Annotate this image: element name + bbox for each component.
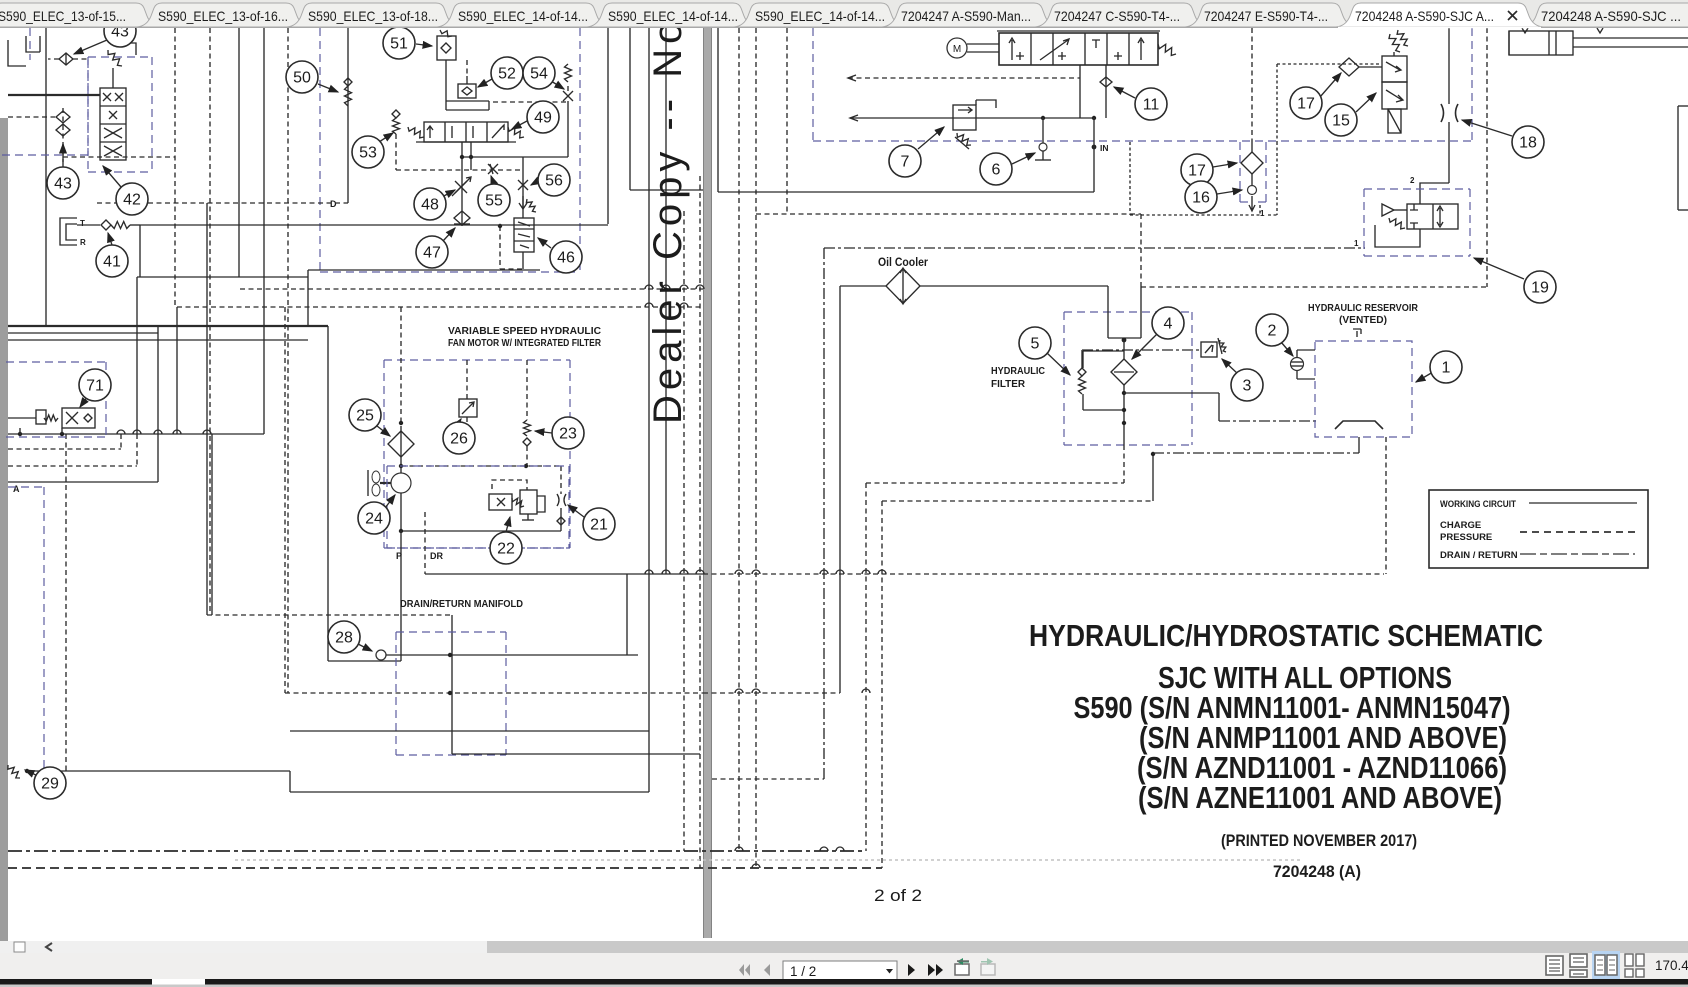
wire	[400, 431, 402, 457]
svg-text:41: 41	[103, 254, 121, 271]
callout balloon 4	[1152, 307, 1184, 339]
wire	[8, 481, 158, 483]
callout balloon 17	[1290, 87, 1322, 119]
restrictor orifice	[103, 93, 111, 101]
callout balloon 16	[1185, 181, 1217, 213]
enclosure (blue dashed)	[505, 632, 507, 755]
wire	[446, 100, 489, 102]
symbol	[1297, 350, 1315, 379]
enclosure (blue dashed)	[568, 466, 570, 548]
symbol	[518, 222, 530, 248]
enclosure (blue dashed)	[1265, 142, 1267, 202]
symbol	[1410, 204, 1418, 229]
wire	[1030, 33, 1032, 65]
bottom black bar	[0, 979, 1688, 985]
symbol	[1016, 52, 1024, 60]
spring	[957, 133, 971, 145]
svg-text:(S/N AZNE11001 AND ABOVE): (S/N AZNE11001 AND ABOVE)	[1138, 780, 1502, 815]
wire	[206, 203, 208, 615]
leader arrow	[1462, 120, 1512, 136]
toolbar row	[0, 953, 1688, 980]
leader arrow	[538, 238, 551, 248]
spring	[345, 86, 352, 106]
enclosure (blue dashed)	[88, 56, 152, 58]
enclosure (blue dashed)	[387, 465, 569, 467]
svg-text:4: 4	[1164, 316, 1173, 333]
symbol	[452, 126, 473, 138]
wire (dash-dot drain line)	[1153, 452, 1359, 454]
spring	[8, 765, 20, 778]
symbol	[1205, 345, 1213, 353]
leader arrow	[80, 396, 88, 407]
component body	[62, 408, 95, 428]
svg-text:7204247 A-S590-Man...: 7204247 A-S590-Man...	[901, 8, 1031, 24]
leader arrow	[551, 81, 564, 89]
enclosure (blue dashed)	[6, 436, 106, 438]
wire	[1677, 106, 1679, 210]
wire	[522, 519, 534, 521]
spring	[526, 199, 536, 212]
svg-text:7204248 A-S590-SJC A...: 7204248 A-S590-SJC A...	[1355, 8, 1494, 24]
wire	[522, 252, 524, 269]
callout balloon 23	[552, 417, 584, 449]
wire (dashed charge line)	[1486, 28, 1488, 287]
wire (dashed charge line)	[8, 116, 55, 118]
wire (dashed charge line)	[699, 176, 701, 868]
wire (dashed charge line)	[396, 169, 523, 171]
wire	[328, 660, 401, 662]
wire (dashed charge line)	[424, 512, 426, 574]
check-valve/filter diamond	[56, 111, 70, 123]
wire	[1448, 28, 1450, 104]
enclosure (blue dashed)	[387, 547, 569, 549]
check-valve/filter diamond	[1339, 58, 1359, 76]
check-valve/filter diamond	[56, 124, 70, 136]
wire	[445, 101, 447, 110]
svg-text:7: 7	[901, 154, 910, 171]
svg-text:(PRINTED NOVEMBER 2017): (PRINTED NOVEMBER 2017)	[1221, 831, 1417, 850]
symbol	[1249, 196, 1255, 211]
enclosure (blue dashed)	[43, 487, 45, 780]
callout balloon 42	[116, 183, 148, 215]
leader arrow	[1281, 342, 1293, 356]
wire	[45, 28, 47, 326]
wire	[567, 86, 569, 91]
enclosure (blue dashed)	[320, 271, 580, 273]
wire	[522, 157, 524, 218]
callout balloon 71	[79, 369, 111, 401]
svg-text:24: 24	[365, 511, 383, 528]
wire (dashed charge line)	[466, 417, 468, 430]
wire	[1052, 33, 1054, 65]
enclosure (blue dashed)	[569, 360, 571, 548]
symbol	[1277, 63, 1382, 65]
wire (dashed charge line)	[401, 465, 561, 467]
svg-text:56: 56	[545, 173, 563, 190]
wire (dashed charge line)	[1141, 286, 1487, 288]
callout balloon 1	[1430, 351, 1462, 383]
wire (dashed charge line)	[712, 778, 824, 780]
callout balloon 24	[358, 502, 390, 534]
wire	[445, 60, 447, 101]
wire	[1573, 46, 1688, 48]
callout balloon 19	[1524, 271, 1556, 303]
wire	[367, 470, 369, 496]
wire (dashed charge line)	[466, 360, 468, 399]
leader arrow	[25, 770, 38, 776]
fan motor 24 with fan	[391, 473, 411, 493]
svg-text:25: 25	[356, 408, 374, 425]
wire (dashed charge line)	[500, 268, 523, 270]
svg-text:VARIABLE SPEED HYDRAULIC: VARIABLE SPEED HYDRAULIC	[448, 325, 601, 337]
svg-text:47: 47	[423, 245, 441, 262]
wire	[100, 123, 126, 125]
wire	[1140, 287, 1142, 338]
wire (dashed charge line)	[865, 483, 867, 851]
svg-text:15: 15	[1332, 113, 1350, 130]
wire	[1042, 118, 1044, 143]
wire	[8, 332, 158, 334]
junction	[1041, 116, 1045, 120]
component body	[999, 33, 1158, 65]
enclosure (blue dashed)	[2, 154, 88, 156]
enclosure (blue dashed)	[1469, 189, 1471, 256]
wire (dashed charge line)	[207, 614, 452, 616]
enclosure (blue dashed)	[1240, 201, 1248, 203]
svg-text:17: 17	[1188, 163, 1206, 180]
wire	[514, 228, 534, 230]
component body	[100, 88, 126, 160]
symbol	[1009, 38, 1015, 60]
check-valve/filter diamond	[392, 110, 400, 118]
wire (dashed charge line)	[136, 434, 138, 466]
wire (dotted)	[1276, 64, 1278, 142]
leader arrow	[491, 176, 494, 184]
wire	[717, 28, 719, 192]
wire	[1082, 394, 1084, 410]
symbol	[1218, 338, 1222, 354]
symbol	[492, 480, 527, 490]
wire	[1105, 77, 1107, 87]
wire	[307, 270, 309, 277]
wire	[136, 277, 138, 434]
enclosure (blue dashed)	[812, 28, 814, 141]
wire	[290, 730, 649, 732]
svg-text:Dealer Copy -- Not for Resale: Dealer Copy -- Not for Resale	[646, 0, 690, 424]
wire	[8, 339, 308, 341]
svg-text:DR: DR	[430, 551, 443, 561]
svg-text:2: 2	[1268, 323, 1277, 340]
svg-text:49: 49	[534, 110, 552, 127]
symbol	[66, 224, 77, 240]
svg-text:DRAIN / RETURN: DRAIN / RETURN	[1440, 550, 1518, 561]
callout balloon 6	[980, 153, 1012, 185]
wire (dashed charge line)	[8, 448, 121, 450]
leader arrow	[1217, 190, 1242, 194]
svg-text:WORKING CIRCUIT: WORKING CIRCUIT	[1440, 499, 1516, 510]
wire	[290, 791, 649, 793]
svg-text:FILTER: FILTER	[991, 378, 1025, 390]
callout balloon 49	[527, 101, 559, 133]
enclosure (blue dashed)	[386, 466, 388, 548]
wire	[997, 30, 1160, 32]
leader arrow	[1222, 359, 1238, 374]
wire (dashed charge line)	[526, 360, 528, 420]
leader arrow	[1213, 163, 1237, 167]
callout balloon 22	[490, 532, 522, 564]
callout balloon 53	[352, 136, 384, 168]
svg-text:S590_ELEC_14-of-14...: S590_ELEC_14-of-14...	[755, 8, 885, 24]
wire	[839, 286, 841, 693]
enclosure (blue dashed)	[1239, 142, 1241, 202]
wire	[1291, 365, 1303, 367]
wire (dashed charge line)	[400, 307, 402, 431]
wire	[386, 654, 638, 656]
svg-text:170.4: 170.4	[1655, 958, 1688, 973]
wire	[400, 531, 402, 661]
wire	[648, 28, 650, 792]
wire	[238, 28, 240, 277]
symbol	[1092, 40, 1100, 48]
wire	[466, 76, 468, 84]
wire (dashed charge line)	[526, 446, 528, 466]
svg-text:55: 55	[485, 193, 503, 210]
wire	[1678, 105, 1688, 107]
wire (trunk)	[380, 482, 391, 484]
spring	[1079, 376, 1086, 394]
svg-text:1: 1	[1354, 239, 1359, 248]
svg-text:D: D	[330, 199, 337, 209]
component body	[437, 36, 456, 60]
component body	[1315, 341, 1412, 437]
wire	[157, 326, 159, 482]
spring	[524, 420, 531, 436]
check-valve/filter diamond	[454, 211, 470, 225]
tab bar	[0, 3, 1688, 28]
check-valve/filter diamond	[462, 87, 472, 95]
callout balloon 5	[1019, 327, 1051, 359]
wire	[560, 508, 562, 531]
restrictor orifice	[518, 180, 528, 190]
svg-text:46: 46	[557, 250, 575, 267]
svg-text:22: 22	[497, 541, 515, 558]
wire	[1083, 409, 1124, 411]
svg-text:26: 26	[450, 431, 468, 448]
callout balloon 11	[1135, 88, 1167, 120]
callout balloon 26	[443, 422, 475, 454]
symbol	[1114, 52, 1122, 60]
wire	[840, 285, 886, 287]
symbol	[1130, 142, 1277, 215]
wire	[967, 43, 999, 45]
wire	[1548, 31, 1550, 55]
wire (dashed charge line)	[786, 28, 788, 214]
wire (dashed charge line)	[1251, 28, 1253, 142]
wire (dashed charge line)	[493, 101, 567, 103]
wire (dashed charge line)	[209, 28, 211, 615]
wire (dashed charge line)	[866, 482, 1124, 484]
callout balloon 7	[889, 145, 921, 177]
wire (dashed charge line)	[703, 573, 1384, 575]
symbol	[490, 164, 493, 174]
callout balloon 15	[1325, 104, 1357, 136]
svg-text:21: 21	[590, 517, 608, 534]
enclosure (blue dashed)	[1064, 311, 1192, 313]
wire (dashed charge line)	[240, 288, 703, 290]
restrictor orifice	[563, 91, 573, 101]
wire (dashed charge line)	[395, 134, 397, 170]
enclosure (blue dashed)	[1364, 255, 1470, 257]
callout balloon 28	[328, 621, 360, 653]
svg-text:2 of 2: 2 of 2	[874, 886, 922, 905]
symbol	[1058, 52, 1066, 60]
svg-text:18: 18	[1519, 135, 1537, 152]
wire	[1448, 122, 1450, 183]
wire	[112, 68, 114, 88]
wire	[920, 285, 1108, 287]
restrictor orifice	[455, 181, 467, 193]
enclosure (blue dashed)	[1064, 444, 1192, 446]
wire	[607, 28, 609, 224]
wire	[1152, 454, 1154, 501]
component body	[489, 494, 512, 510]
junction	[399, 464, 403, 468]
wire (dashed charge line)	[285, 692, 703, 694]
leader arrow	[506, 517, 510, 532]
wire	[1251, 142, 1253, 152]
symbol	[1335, 421, 1383, 429]
check-valve/filter diamond	[1100, 77, 1112, 87]
leader arrow	[1012, 153, 1035, 164]
wire	[289, 771, 291, 792]
spring	[44, 415, 58, 421]
wire (dashed charge line)	[683, 211, 685, 851]
wire	[1128, 33, 1130, 65]
wire	[327, 326, 329, 661]
wire (trunk)	[8, 325, 328, 327]
wire	[1093, 118, 1095, 192]
leader arrow	[377, 426, 390, 436]
wire	[1123, 385, 1125, 445]
wire	[307, 277, 309, 326]
wire (dashed charge line)	[8, 465, 137, 467]
leader arrow	[385, 495, 395, 508]
symbol	[557, 494, 559, 506]
wire	[1358, 437, 1360, 453]
check-valve/filter diamond	[344, 78, 352, 86]
restrictor orifice	[109, 111, 117, 119]
wire (dashed charge line)	[48, 58, 59, 60]
svg-text:52: 52	[498, 66, 516, 83]
callout balloon 3	[1231, 369, 1263, 401]
svg-text:HYDRAULIC RESERVOIR: HYDRAULIC RESERVOIR	[1308, 302, 1418, 314]
wire (dashed charge line)	[756, 213, 1141, 215]
callout balloon 18	[1512, 126, 1544, 158]
svg-text:(VENTED): (VENTED)	[1339, 314, 1387, 326]
svg-text:17: 17	[1297, 96, 1315, 113]
wire	[1218, 393, 1220, 421]
callout balloon 25	[349, 399, 381, 431]
symbol	[955, 137, 969, 149]
wire (dashed charge line)	[73, 58, 88, 60]
component body	[1429, 490, 1648, 568]
component body	[1388, 109, 1401, 133]
symbol	[1353, 329, 1361, 337]
wire	[19, 428, 21, 434]
spring	[565, 64, 572, 82]
wire	[446, 109, 489, 111]
wire (dashed charge line)	[560, 466, 562, 494]
symbol	[492, 125, 504, 138]
svg-text:T: T	[80, 219, 85, 228]
leader arrow	[459, 419, 461, 422]
wire (dashed charge line)	[466, 60, 468, 76]
wire (dashed charge line)	[1123, 445, 1125, 483]
wire	[1105, 65, 1107, 77]
enclosure (blue dashed)	[29, 28, 31, 60]
wire	[1555, 31, 1557, 55]
wire (dashed charge line)	[284, 307, 286, 693]
enclosure (blue dashed)	[87, 57, 89, 172]
svg-text:IN: IN	[1100, 143, 1109, 153]
leader arrow	[379, 133, 393, 142]
callout balloon 56	[538, 164, 570, 196]
leader arrow	[478, 79, 492, 87]
enclosure (blue dashed)	[1471, 28, 1473, 141]
wire	[850, 117, 1094, 119]
callout balloon 52	[491, 57, 523, 89]
component body	[520, 490, 537, 514]
wire	[454, 223, 470, 225]
svg-text:S590_ELEC_13-of-18...: S590_ELEC_13-of-18...	[308, 8, 438, 24]
wire	[1106, 33, 1108, 65]
svg-text:S590_ELEC_14-of-14...: S590_ELEC_14-of-14...	[458, 8, 588, 24]
wire	[308, 269, 540, 271]
wire	[1359, 66, 1382, 68]
wire	[65, 53, 67, 65]
symbol	[1138, 38, 1144, 60]
check-valve/filter diamond	[557, 517, 565, 525]
svg-text:7204248 (A): 7204248 (A)	[1273, 862, 1361, 881]
wire	[263, 28, 265, 434]
enclosure (blue dashed)	[8, 486, 44, 488]
check-valve/filter diamond	[1111, 359, 1137, 385]
enclosure (blue dashed)	[579, 28, 581, 272]
svg-text:50: 50	[293, 70, 311, 87]
svg-text:54: 54	[530, 66, 548, 83]
svg-text:S590_ELEC_13-of-16...: S590_ELEC_13-of-16...	[158, 8, 288, 24]
symbol	[1456, 104, 1459, 122]
spring	[393, 118, 400, 134]
wire (dashed charge line)	[1385, 437, 1387, 574]
svg-text:HYDRAULIC/HYDROSTATIC SCHEMATI: HYDRAULIC/HYDROSTATIC SCHEMATIC	[1029, 618, 1543, 653]
enclosure (blue dashed)	[395, 632, 397, 755]
svg-text:2: 2	[1410, 176, 1415, 185]
leader arrow	[1416, 372, 1433, 382]
wire	[486, 122, 488, 142]
callout balloon 43	[104, 15, 136, 47]
check-valve/filter diamond	[1241, 152, 1263, 174]
callout balloon 21	[583, 508, 615, 540]
wire	[1083, 350, 1124, 352]
check-valve/filter diamond	[388, 431, 414, 457]
wire	[461, 142, 463, 226]
spring	[508, 127, 524, 138]
symbol	[976, 100, 996, 108]
symbol	[900, 268, 906, 304]
callout balloon 51	[383, 27, 415, 59]
svg-text:42: 42	[123, 192, 141, 209]
